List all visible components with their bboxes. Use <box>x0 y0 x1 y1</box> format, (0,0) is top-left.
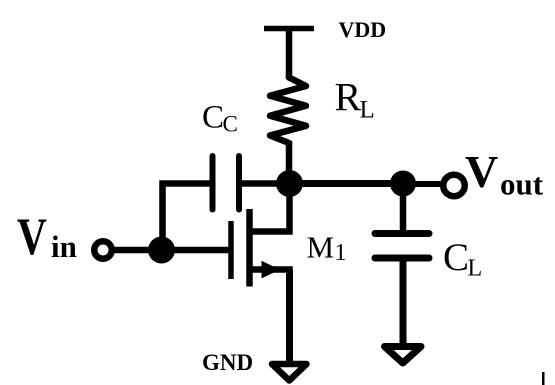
svg-text:V: V <box>17 208 47 266</box>
svg-text:L: L <box>468 256 483 282</box>
transistor M1 drain lead <box>250 184 290 232</box>
terminal Vout open circle <box>443 175 465 197</box>
transistor M1 channel bar <box>246 209 253 287</box>
svg-text:VDD: VDD <box>339 17 387 42</box>
ground symbol (CL) triangle <box>385 347 422 364</box>
svg-text:1: 1 <box>335 240 347 266</box>
svg-text:R: R <box>335 75 362 120</box>
wire output node to capacitor CL <box>400 184 407 234</box>
svg-text:L: L <box>360 97 375 124</box>
node input junction dot <box>148 237 175 264</box>
CL value label <box>443 236 482 282</box>
capacitor CC right plate <box>236 156 242 210</box>
wire output node to Vout terminal <box>403 181 442 187</box>
ground symbol (source) triangle <box>272 364 307 381</box>
VDD supply rail bar <box>264 26 314 32</box>
capacitor CC left plate <box>210 156 216 210</box>
transistor M1 source lead <box>250 270 290 276</box>
svg-text:M: M <box>307 229 335 264</box>
transistor M1 gate bar <box>228 221 234 279</box>
node output junction dot <box>390 171 416 197</box>
svg-text:C: C <box>443 236 469 279</box>
svg-text:V: V <box>465 146 498 197</box>
svg-text:GND: GND <box>202 350 253 375</box>
svg-text:out: out <box>500 167 544 202</box>
wire drain node to output node <box>290 180 404 187</box>
svg-text:C: C <box>223 112 238 137</box>
wire M1 source to ground <box>286 270 293 363</box>
wire CC right plate to drain node <box>242 180 290 187</box>
stray crop mark bottom right <box>542 372 545 385</box>
CC value label <box>202 100 238 137</box>
svg-text:C: C <box>202 100 224 136</box>
wire Vin terminal to gate of M1 <box>112 247 229 254</box>
Vout label <box>465 146 544 202</box>
wire capacitor CL to ground <box>400 258 407 347</box>
resistor RL <box>270 78 306 144</box>
wire VDD bar to resistor RL <box>286 29 293 80</box>
transistor M1 source arrow <box>262 261 281 279</box>
node drain junction dot <box>276 170 303 197</box>
capacitor CL top plate <box>375 230 429 237</box>
capacitor CL bottom plate <box>375 255 429 262</box>
svg-text:in: in <box>51 229 77 264</box>
RL value label <box>335 75 375 124</box>
terminal Vin open circle <box>94 241 112 259</box>
M1 label <box>307 229 347 266</box>
Vin label <box>17 208 77 266</box>
wire resistor RL to drain node <box>286 141 293 184</box>
wire CC left plate to input node (L bend) <box>163 184 210 251</box>
